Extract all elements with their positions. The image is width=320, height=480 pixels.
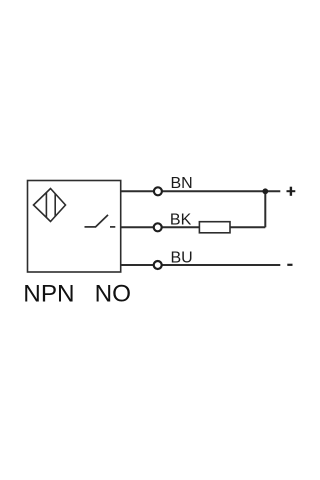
svg-text:NO: NO bbox=[95, 280, 131, 307]
svg-text:BU: BU bbox=[171, 249, 193, 266]
svg-text:BN: BN bbox=[171, 175, 193, 192]
svg-text:NPN: NPN bbox=[23, 280, 74, 307]
svg-text:BK: BK bbox=[170, 212, 192, 229]
